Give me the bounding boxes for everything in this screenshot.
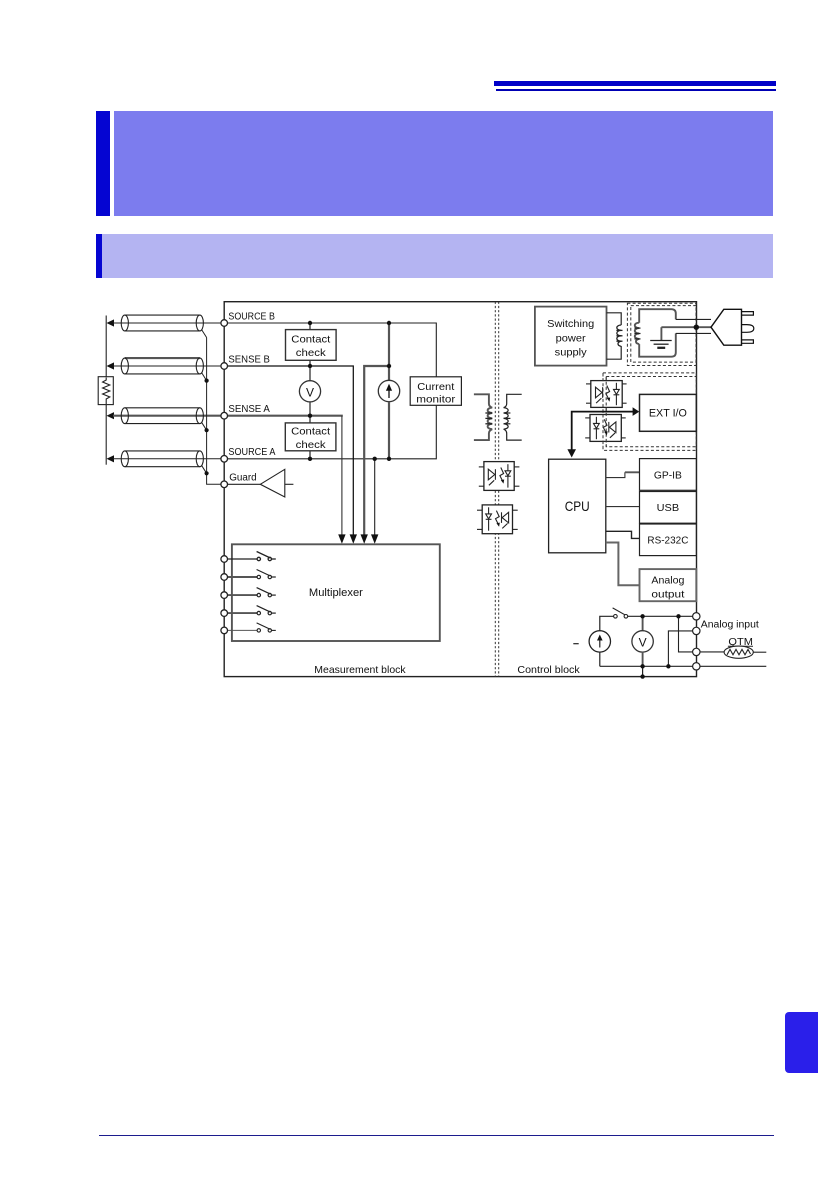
wire CPU to RS-232C [606,531,640,538]
terminal SOURCE B [221,320,228,327]
arrow CPU to EXT I/O [572,412,634,455]
EXT I/O box [640,394,697,431]
voltmeter V1 [299,366,320,416]
minus sign [573,643,578,645]
coax cable SOURCE A [113,451,221,467]
analog output box [640,569,697,601]
svg-text:monitor: monitor [416,394,456,406]
junction dots on guard bus [205,379,209,476]
photocoupler PC4 (EXT I/O) [585,415,626,442]
svg-text:output: output [651,588,684,600]
arrow to DUT row4 [107,455,115,462]
wire mains neutral [639,333,676,356]
wire analog top rail [628,615,693,617]
transformer T3 primary winding [635,323,639,344]
guard buffer amp [228,469,294,497]
arrow to DUT row3 [107,412,115,419]
terminal SOURCE A [221,456,228,463]
wire source drive to multiplexer [364,366,389,536]
current source I1 [378,323,399,459]
svg-text:CPU: CPU [565,498,590,514]
coax cable SENSE A [113,408,221,424]
arrow to DUT row1 [107,319,115,326]
svg-text:check: check [296,347,327,359]
svg-text:GP-IB: GP-IB [654,469,682,481]
footer rule [99,1135,774,1137]
power entry dashed enclosure [627,303,696,365]
multiplexer channel 3 switch [228,588,276,597]
cable shield to guard bus wires [202,330,222,485]
wire CPU to USB [606,506,640,508]
svg-text:SENSE A: SENSE A [228,404,270,415]
svg-text:SENSE B: SENSE B [228,355,270,366]
svg-text:Contact: Contact [291,426,330,438]
chapter title banner [114,111,773,216]
wire analog bottom rail [600,665,693,667]
wire contact check 2 stubs [309,416,311,459]
isolation barrier dashed lines [495,302,498,677]
coax cable SENSE B [113,358,221,374]
thermistor QTM [700,646,766,658]
voltmeter V2 [632,616,653,666]
wire CPU to GP-IB [606,472,625,477]
svg-text:SOURCE B: SOURCE B [228,312,275,323]
switching power supply box [535,307,607,366]
svg-text:EXT I/O: EXT I/O [649,408,687,420]
transformer T2 secondary winding [616,325,622,346]
svg-text:supply: supply [555,347,588,359]
wire protective earth [661,327,711,340]
EXT I/O isolation dashed enclosure [603,373,696,451]
arrow to DUT row2 [107,362,115,369]
multiplexer input terminals [221,556,228,634]
USB box [640,492,697,524]
wire SOURCE B rail [228,323,437,377]
wire T1-T3 link [679,616,693,652]
arrowheads into multiplexer [338,534,378,543]
wire SENSE A rail to multiplexer [228,415,343,417]
wire SOURCE A to multiplexer [374,459,376,536]
terminal SENSE B [221,363,228,370]
wire SOURCE A rail [228,405,437,459]
multiplexer channel 5 switch [228,623,276,632]
photocoupler PC2 (barrier) [477,505,518,534]
coax cable SOURCE B [113,315,221,331]
analog input terminals [693,613,700,670]
analog junction dots [640,614,680,679]
transformer T1 left winding (measurement side) [474,394,492,440]
isolation dashed line through EXT photocouplers [603,373,606,451]
svg-text:V: V [306,385,314,399]
svg-text:RS-232C: RS-232C [647,535,688,547]
multiplexer channel 2 switch [228,570,276,579]
resistor DUT [98,377,113,405]
terminal SENSE A [221,412,228,419]
photocoupler PC3 (EXT I/O) [586,381,627,408]
multiplexer channel 1 switch [228,552,276,561]
current monitor box [410,377,461,406]
svg-text:Switching: Switching [547,318,594,330]
svg-text:Measurement block: Measurement block [314,664,406,676]
wire T2 link [668,631,692,666]
junction dots measurement [308,321,391,461]
CPU box [549,459,606,553]
wire SENSE B rail to multiplexer [228,366,354,536]
svg-text:USB: USB [657,502,680,514]
measurement/control outer enclosure box [224,302,696,677]
side chapter tab [785,1012,818,1073]
chapter title banner dark bar [96,111,110,216]
svg-text:check: check [296,439,327,451]
terminal Guard [221,481,228,488]
svg-text:Guard: Guard [229,473,257,484]
ground symbol [650,341,672,348]
contact check box 2 [285,423,336,451]
svg-text:Multiplexer: Multiplexer [309,587,363,599]
header double rule [494,81,776,86]
wire contact check 1 stubs [309,323,311,366]
svg-text:Control block: Control block [517,664,580,676]
chassis node dot [694,325,699,330]
AC plug [711,309,742,345]
wire analog input low [700,665,766,667]
wire SPS to transformer T2 [607,313,622,359]
GP-IB box [640,459,697,491]
analog input current source I2 [589,616,613,666]
svg-text:Analog input: Analog input [701,619,759,630]
svg-text:Analog: Analog [651,574,684,586]
analog input switch [613,608,628,618]
multiplexer box [232,544,440,641]
svg-text:power: power [556,333,587,345]
svg-text:Current: Current [417,381,454,393]
multiplexer channel 4 switch [228,606,276,615]
RS-232C box [640,524,697,556]
wire mains live [639,309,676,323]
contact check box 1 [286,330,337,361]
section banner dark bar [96,234,102,279]
svg-text:V: V [639,635,647,649]
svg-text:SOURCE A: SOURCE A [228,447,275,458]
wire CPU to analog output [606,543,640,586]
svg-text:Contact: Contact [291,333,330,345]
transformer T1 right winding (control side) [504,394,522,440]
photocoupler PC1 (barrier) [479,462,520,491]
DUT return bus wire (far left vertical) [105,316,107,465]
section banner [102,234,774,279]
